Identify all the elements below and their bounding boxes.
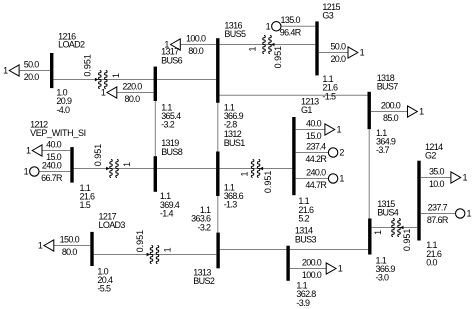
svg-text:-3.2: -3.2 [161, 120, 175, 130]
svg-text:-1.4: -1.4 [160, 208, 174, 218]
svg-text:0.0: 0.0 [426, 257, 437, 267]
wire BUS1 to G1 via T4 [220, 168, 293, 170]
svg-text:40.0: 40.0 [306, 118, 322, 128]
bus 1217 LOAD3 [90, 232, 93, 266]
svg-text:1: 1 [338, 264, 343, 274]
svg-text:220.0: 220.0 [122, 81, 142, 91]
wire line G1 unit 2 [296, 152, 329, 154]
wire BUS3 to BUS4 [290, 249, 368, 251]
svg-text:50.0: 50.0 [24, 59, 40, 69]
wire BUS5 to BUS7 [220, 94, 368, 96]
svg-text:1: 1 [24, 167, 29, 177]
transformer T2 BUS5-G3 ratio 1:0.951 [263, 36, 266, 54]
svg-text:20.0: 20.0 [330, 54, 346, 64]
svg-text:80.0: 80.0 [125, 94, 141, 104]
wire BUS6 to BUS5 [157, 79, 216, 81]
svg-text:1: 1 [463, 173, 468, 183]
svg-text:44.2R: 44.2R [305, 154, 327, 164]
wire BUS8 to BUS1 [157, 168, 216, 170]
wire line load at BUS6 [117, 92, 154, 94]
generator G2 unit [456, 209, 465, 218]
load load at LOAD2 [9, 65, 19, 76]
transformer T3 VEP-BUS8 ratio 0.951:1 [110, 160, 113, 178]
svg-text:G3: G3 [322, 10, 333, 20]
load load at LOAD3 [44, 240, 54, 251]
svg-text:1: 1 [163, 247, 173, 252]
svg-text:BUS5: BUS5 [224, 29, 246, 39]
svg-text:G2: G2 [425, 151, 436, 161]
svg-text:-1.5: -1.5 [322, 91, 336, 101]
transformer T5 LOAD3-BUS2 ratio 0.951:1 [150, 246, 153, 264]
svg-text:1: 1 [337, 125, 342, 135]
svg-text:237.4: 237.4 [306, 141, 326, 151]
svg-text:80.0: 80.0 [62, 247, 78, 257]
svg-text:96.4R: 96.4R [280, 28, 302, 38]
generator G3 unit [272, 22, 281, 31]
svg-text:87.6R: 87.6R [427, 215, 449, 225]
bus 1319 BUS8 [154, 156, 157, 192]
wire line load at G1 [296, 129, 325, 131]
svg-text:-2.8: -2.8 [224, 120, 238, 130]
load load at BUS5 [171, 39, 181, 50]
svg-text:50.0: 50.0 [330, 41, 346, 51]
svg-text:VEP_WITH_SI: VEP_WITH_SI [30, 128, 86, 138]
transformer T1 LOAD2-BUS6 ratio 0.951:1 [99, 71, 102, 89]
svg-text:100.0: 100.0 [302, 270, 322, 280]
svg-text:BUS1: BUS1 [224, 138, 246, 148]
svg-text:1: 1 [38, 241, 43, 251]
svg-text:44.7R: 44.7R [305, 180, 327, 190]
svg-text:-4.0: -4.0 [56, 105, 70, 115]
svg-text:BUS2: BUS2 [193, 276, 215, 286]
svg-text:66.7R: 66.7R [41, 173, 63, 183]
svg-text:0.951: 0.951 [263, 171, 273, 194]
svg-text:0.951: 0.951 [402, 229, 412, 252]
svg-text:BUS3: BUS3 [295, 234, 317, 244]
svg-text:1: 1 [239, 172, 249, 177]
svg-text:1: 1 [419, 107, 424, 117]
wire VEP_WITH_SI to BUS8 via T3 [74, 168, 154, 170]
svg-text:0.951: 0.951 [273, 46, 283, 69]
transformer T6 BUS4-G2 ratio 1:0.951 [392, 219, 395, 237]
bus 1315 BUS4 [368, 219, 371, 255]
generator G1 unit 1 [328, 174, 337, 183]
bus 1216 LOAD2 [50, 53, 53, 88]
svg-text:BUS7: BUS7 [377, 82, 399, 92]
wire line load at G3 [319, 52, 348, 54]
svg-text:1: 1 [26, 146, 31, 156]
wire line load at G2 [421, 177, 451, 179]
bus 1314 BUS3 [286, 246, 289, 281]
svg-text:G1: G1 [301, 105, 312, 115]
svg-text:-3.0: -3.0 [376, 273, 390, 283]
svg-text:BUS4: BUS4 [377, 208, 399, 218]
bus 1313 BUS2 [216, 233, 219, 269]
svg-text:237.7: 237.7 [428, 202, 448, 212]
transformer T4 BUS1-G1 ratio 1:0.951 [251, 160, 254, 178]
svg-text:2: 2 [339, 148, 344, 158]
svg-text:240.0: 240.0 [42, 160, 62, 170]
svg-text:100.0: 100.0 [186, 33, 206, 43]
bus 1213 G1 [292, 117, 295, 195]
bus 1312 BUS1 [216, 152, 219, 197]
svg-text:1: 1 [101, 88, 106, 98]
bus 1316 BUS5 [216, 38, 219, 103]
wire line G2 unit [421, 213, 456, 215]
generator G1 unit 2 [328, 148, 337, 157]
svg-text:15.0: 15.0 [306, 131, 322, 141]
wire BUS4 to G2 via T6 [372, 227, 417, 229]
wire BUS6 to BUS8 vertical [154, 101, 156, 156]
load load at G2 [451, 172, 461, 183]
svg-text:1: 1 [122, 162, 132, 167]
svg-text:40.0: 40.0 [46, 139, 62, 149]
wire line G3 unit [281, 25, 315, 27]
generator VEP unit [30, 167, 39, 176]
wire line load at VEP_WITH_SI [42, 150, 70, 152]
svg-text:1: 1 [3, 66, 8, 76]
load load at BUS3 [326, 263, 336, 274]
wire line G1 unit 1 [296, 178, 329, 180]
bus 1214 G2 [417, 161, 420, 241]
svg-text:-3.2: -3.2 [197, 222, 211, 232]
svg-text:200.0: 200.0 [302, 257, 322, 267]
wire line load at LOAD3 [54, 245, 91, 247]
bus 1317 BUS6 [154, 67, 157, 101]
svg-text:10.0: 10.0 [429, 179, 445, 189]
wire BUS2 to BUS3 [220, 249, 287, 251]
load load at BUS7 [408, 106, 418, 117]
svg-text:200.0: 200.0 [381, 100, 401, 110]
svg-text:1: 1 [266, 22, 271, 32]
svg-text:LOAD3: LOAD3 [99, 220, 126, 230]
bus 1212 VEP_WITH_SI [70, 147, 73, 183]
svg-text:0.951: 0.951 [135, 230, 145, 253]
svg-text:1: 1 [373, 230, 383, 235]
svg-text:-5.5: -5.5 [97, 284, 111, 294]
svg-text:240.0: 240.0 [306, 167, 326, 177]
svg-text:80.0: 80.0 [188, 46, 204, 56]
svg-text:1: 1 [248, 47, 258, 52]
svg-text:0.951: 0.951 [93, 144, 103, 167]
bus 1215 G3 [315, 21, 318, 75]
wire BUS7 to BUS4 vertical [368, 129, 370, 218]
svg-text:0.951: 0.951 [82, 54, 92, 77]
wire BUS1 to BUS2 vertical [217, 196, 219, 233]
wire line VEP unit [39, 171, 70, 173]
wire LOAD3 to BUS2 via T5 [94, 254, 217, 256]
svg-text:5.2: 5.2 [298, 213, 309, 223]
svg-text:35.0: 35.0 [429, 166, 445, 176]
svg-text:1: 1 [360, 48, 365, 58]
svg-text:BUS6: BUS6 [161, 56, 183, 66]
svg-text:-3.7: -3.7 [376, 145, 390, 155]
svg-text:1.5: 1.5 [80, 200, 91, 210]
wire LOAD2 to BUS6 via T1 [53, 79, 153, 81]
wire line load at BUS7 [371, 111, 408, 113]
bus 1318 BUS7 [368, 92, 371, 129]
wire BUS5 to BUS1 vertical [217, 103, 219, 152]
load load at VEP_WITH_SI [32, 145, 42, 156]
wire BUS5 to G3 via T2 [220, 44, 316, 46]
wire line load at BUS5 [180, 44, 216, 46]
wire line load at BUS3 [290, 268, 326, 270]
load load at BUS6 [107, 87, 117, 98]
svg-text:150.0: 150.0 [60, 234, 80, 244]
svg-text:135.0: 135.0 [281, 15, 301, 25]
svg-text:1: 1 [339, 174, 344, 184]
svg-text:-1.3: -1.3 [224, 200, 238, 210]
svg-text:85.0: 85.0 [383, 113, 399, 123]
svg-text:1: 1 [467, 209, 472, 219]
svg-text:20.0: 20.0 [24, 72, 40, 82]
load load at G1 [325, 124, 335, 135]
svg-text:BUS8: BUS8 [161, 147, 183, 157]
wire line load at LOAD2 [19, 70, 50, 72]
load load at G3 [348, 47, 358, 58]
svg-text:-3.9: -3.9 [296, 298, 310, 308]
svg-text:LOAD2: LOAD2 [58, 40, 85, 50]
svg-text:1: 1 [111, 73, 121, 78]
